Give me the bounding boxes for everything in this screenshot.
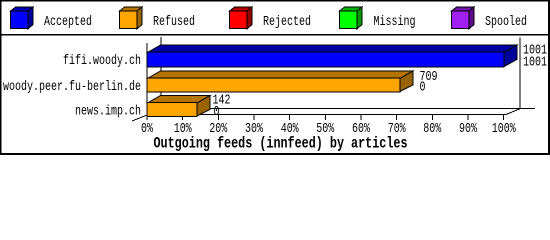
tick 10%	[182, 115, 183, 120]
svg-text:0%: 0%	[141, 121, 153, 137]
tick 80%	[432, 115, 433, 120]
back-bottom axis	[161, 108, 536, 109]
image border right	[548, 0, 550, 155]
svg-text:90%: 90%	[459, 121, 477, 137]
bottom-left depth diagonal	[132, 115, 147, 121]
image border left	[0, 0, 2, 155]
svg-text:0: 0	[214, 104, 220, 120]
bar news.imp.ch front face	[147, 103, 197, 117]
legend cube Missing (green)	[340, 7, 363, 29]
tick 20%	[218, 115, 219, 120]
front-left axis with 0% tick	[147, 43, 148, 120]
tick 40%	[289, 115, 290, 120]
tick 30%	[254, 115, 255, 120]
svg-text:news.imp.ch: news.imp.ch	[75, 104, 141, 120]
bar fifi.woody.ch front face	[147, 52, 504, 67]
svg-text:Missing: Missing	[374, 14, 416, 30]
svg-text:80%: 80%	[423, 121, 441, 137]
svg-text:1001: 1001	[523, 54, 547, 70]
legend separator line	[0, 34, 550, 36]
svg-text:Refused: Refused	[153, 14, 195, 30]
svg-text:fifi.woody.ch: fifi.woody.ch	[63, 53, 141, 69]
svg-text:woody.peer.fu-berlin.de: woody.peer.fu-berlin.de	[3, 79, 141, 95]
bar woody.peer.fu-berlin.de front face	[147, 78, 400, 92]
svg-text:Accepted: Accepted	[44, 14, 92, 30]
front-bottom axis	[147, 114, 507, 115]
legend cube Accepted (blue)	[11, 7, 34, 29]
tick 100%	[503, 115, 504, 120]
bar news.imp.ch top face	[148, 96, 211, 117]
tick 70%	[396, 115, 397, 120]
bottom-right depth diagonal	[506, 109, 521, 115]
image border bottom	[0, 153, 550, 155]
svg-text:100%: 100%	[492, 121, 516, 137]
back-right axis (100% back)	[520, 38, 521, 109]
bar fifi.woody.ch top face	[148, 45, 518, 67]
tick 50%	[325, 115, 326, 120]
image border top	[0, 0, 550, 2]
svg-text:Rejected: Rejected	[263, 14, 311, 30]
legend cube Rejected (red)	[230, 7, 253, 29]
tick 60%	[361, 115, 362, 120]
svg-text:Outgoing feeds (innfeed) by ar: Outgoing feeds (innfeed) by articles	[154, 135, 408, 153]
tick 90%	[468, 115, 469, 120]
legend cube Spooled (purple)	[452, 7, 475, 29]
back-left axis	[161, 37, 162, 108]
svg-text:Spooled: Spooled	[485, 14, 527, 30]
bar woody.peer.fu-berlin.de top face	[148, 71, 414, 92]
legend cube Refused (orange)	[120, 7, 143, 29]
svg-text:0: 0	[420, 80, 426, 96]
